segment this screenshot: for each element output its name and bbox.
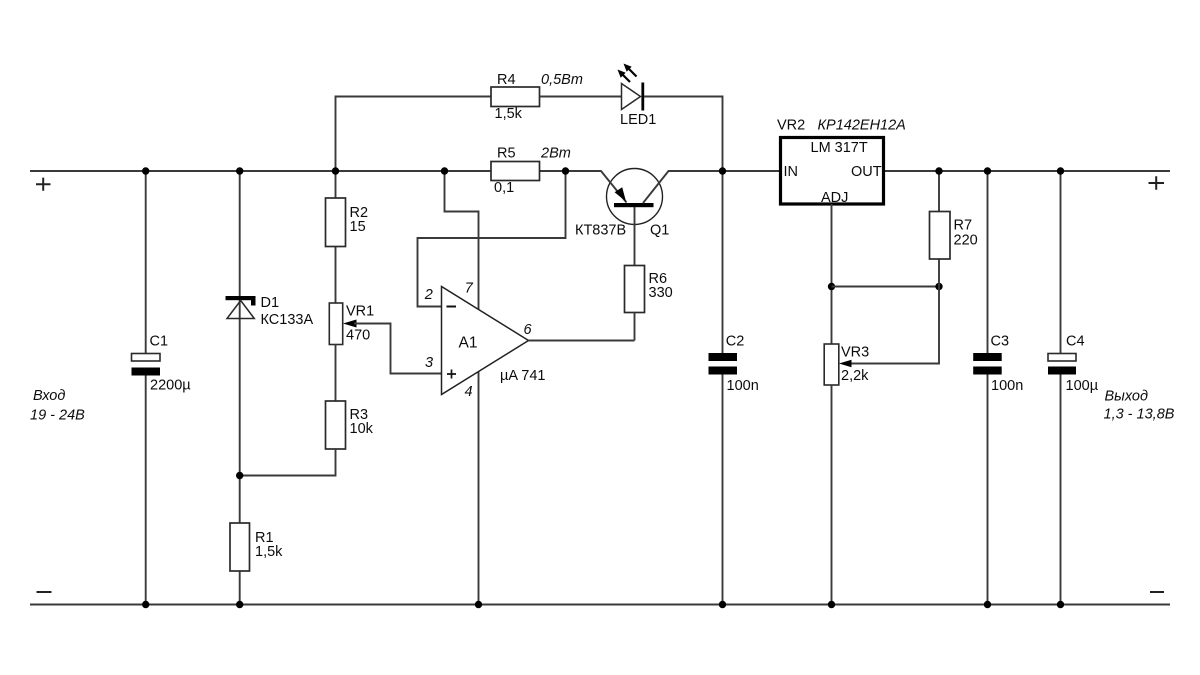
zener diode D1 xyxy=(226,296,256,319)
svg-text:C1: C1 xyxy=(150,334,169,350)
capacitor C4 xyxy=(1048,354,1076,375)
capacitor C2 xyxy=(709,353,738,375)
plus terminal input xyxy=(36,178,51,191)
wire pin 4 to bottom rail xyxy=(478,371,480,605)
wire C2 branch xyxy=(722,171,724,605)
svg-text:0,5Вт: 0,5Вт xyxy=(541,72,583,88)
svg-text:2: 2 xyxy=(424,287,433,303)
node top rail C3 xyxy=(984,167,991,174)
node bottom rail C2 xyxy=(719,601,726,608)
LED LED1 xyxy=(622,83,643,111)
potentiometer VR1 xyxy=(329,303,342,345)
node ADJ junction xyxy=(828,283,835,290)
svg-text:15: 15 xyxy=(350,219,366,235)
plus terminal output xyxy=(1149,176,1165,189)
wire LED1 to rail node xyxy=(644,97,723,172)
svg-text:100µ: 100µ xyxy=(1066,378,1099,394)
resistor R7 xyxy=(930,212,951,260)
svg-text:Выход: Выход xyxy=(1105,389,1149,405)
svg-text:VR2: VR2 xyxy=(777,118,805,134)
resistor R5 xyxy=(491,162,540,181)
node top rail R5 right xyxy=(562,167,569,174)
wire VR1 to R3 xyxy=(335,345,337,402)
resistor R6 xyxy=(625,266,645,313)
transistor Q1 xyxy=(601,169,669,225)
resistor R1 xyxy=(230,523,250,571)
svg-text:D1: D1 xyxy=(261,295,280,311)
node bottom rail VR3 xyxy=(828,601,835,608)
wire bottom negative rail xyxy=(30,604,1170,606)
svg-text:220: 220 xyxy=(954,233,978,249)
svg-text:IN: IN xyxy=(784,164,799,180)
svg-text:C2: C2 xyxy=(726,334,745,350)
svg-text:19 - 24В: 19 - 24В xyxy=(30,408,85,424)
wire ADJ to R7 xyxy=(832,286,940,288)
wire R4 to LED1 xyxy=(540,96,622,98)
wire C3 branch xyxy=(987,171,989,605)
wire R7 branch xyxy=(938,171,940,287)
node top rail C4 xyxy=(1057,167,1064,174)
minus terminal input xyxy=(37,591,52,593)
svg-text:Q1: Q1 xyxy=(650,223,669,239)
wire D1 branch xyxy=(239,171,241,605)
svg-text:330: 330 xyxy=(649,285,673,301)
svg-text:1,5k: 1,5k xyxy=(255,544,283,560)
svg-text:1,3 - 13,8В: 1,3 - 13,8В xyxy=(1104,407,1175,423)
LED1 emission arrow 2 xyxy=(618,70,631,83)
VR3 wiper arrow xyxy=(839,360,852,367)
svg-text:ADJ: ADJ xyxy=(821,190,848,206)
potentiometer VR3 xyxy=(824,344,839,385)
node top rail R2/R4 xyxy=(332,167,339,174)
node R3/D1 junction xyxy=(236,472,243,479)
op-amp A1 xyxy=(442,287,529,395)
node top rail pin7 supply xyxy=(441,167,448,174)
node bottom rail C1 xyxy=(142,601,149,608)
wire VR3 wiper to R7 xyxy=(852,287,940,364)
svg-text:2200µ: 2200µ xyxy=(150,378,191,394)
wire VR1 wiper to pin 3 xyxy=(354,324,442,374)
node top rail LED/C2 xyxy=(719,167,726,174)
wire R6 to pin 6 xyxy=(634,313,636,341)
svg-text:КС133А: КС133А xyxy=(261,312,314,328)
svg-text:R5: R5 xyxy=(497,146,516,162)
wire R3 bottom to D1 node xyxy=(240,449,336,476)
svg-text:470: 470 xyxy=(346,328,370,344)
svg-text:10k: 10k xyxy=(350,421,374,437)
svg-text:КТ837В: КТ837В xyxy=(575,223,626,239)
wire C4 branch xyxy=(1060,171,1062,605)
node bottom rail R1 xyxy=(236,601,243,608)
svg-text:VR3: VR3 xyxy=(841,345,869,361)
svg-text:2,2k: 2,2k xyxy=(841,368,869,384)
svg-text:LED1: LED1 xyxy=(620,112,656,128)
node bottom rail C3 xyxy=(984,601,991,608)
svg-text:3: 3 xyxy=(425,355,433,371)
VR1 wiper arrow xyxy=(343,320,357,328)
svg-text:100n: 100n xyxy=(727,378,759,394)
wire C1 branch xyxy=(145,171,147,605)
resistor R4 xyxy=(491,87,540,107)
wire top positive rail right of Q1 xyxy=(668,170,1170,172)
regulator VR2 xyxy=(781,138,884,205)
wire pin 6 output xyxy=(529,340,635,342)
op-amp plus input mark xyxy=(447,370,456,379)
capacitor C1 xyxy=(132,354,161,376)
svg-text:Вход: Вход xyxy=(33,388,65,404)
svg-text:7: 7 xyxy=(465,281,474,297)
resistor R2 xyxy=(326,198,346,247)
svg-text:A1: A1 xyxy=(459,335,478,352)
op-amp minus input mark xyxy=(447,306,457,308)
LED1 emission arrow 1 xyxy=(624,64,637,77)
svg-text:6: 6 xyxy=(524,322,533,338)
svg-text:LM 317T: LM 317T xyxy=(811,140,868,156)
svg-text:µA 741: µA 741 xyxy=(500,368,545,384)
svg-text:КР142ЕН12А: КР142ЕН12А xyxy=(818,118,906,134)
wire feedback R5 to pin 2 xyxy=(418,171,566,307)
capacitor C3 xyxy=(973,353,1002,375)
svg-text:C3: C3 xyxy=(991,334,1010,350)
svg-text:VR1: VR1 xyxy=(346,304,374,320)
wire ADJ branch xyxy=(831,204,833,344)
svg-text:100n: 100n xyxy=(991,378,1023,394)
svg-text:1,5k: 1,5k xyxy=(495,106,523,122)
svg-text:2Вт: 2Вт xyxy=(540,146,571,162)
svg-text:4: 4 xyxy=(465,384,473,400)
svg-text:C4: C4 xyxy=(1066,334,1085,350)
svg-text:0,1: 0,1 xyxy=(494,180,514,196)
node bottom rail pin 4 xyxy=(475,601,482,608)
node top rail D1 xyxy=(236,167,243,174)
minus terminal output xyxy=(1150,591,1164,593)
node R7 bottom junction xyxy=(935,283,942,290)
svg-text:R7: R7 xyxy=(954,218,973,234)
node top rail C1 xyxy=(142,167,149,174)
node bottom rail C4 xyxy=(1057,601,1064,608)
wire R4 branch xyxy=(336,97,492,172)
svg-text:R4: R4 xyxy=(497,72,516,88)
wire top positive rail left of Q1 xyxy=(30,170,602,172)
svg-text:OUT: OUT xyxy=(851,164,882,180)
resistor R3 xyxy=(326,401,346,449)
wire supply to pin 7 xyxy=(445,171,479,310)
wire VR3 bottom xyxy=(831,385,833,605)
wire R2 branch xyxy=(335,171,337,303)
wire Q1 base to R6 xyxy=(634,207,636,266)
node top rail R7 xyxy=(935,167,942,174)
